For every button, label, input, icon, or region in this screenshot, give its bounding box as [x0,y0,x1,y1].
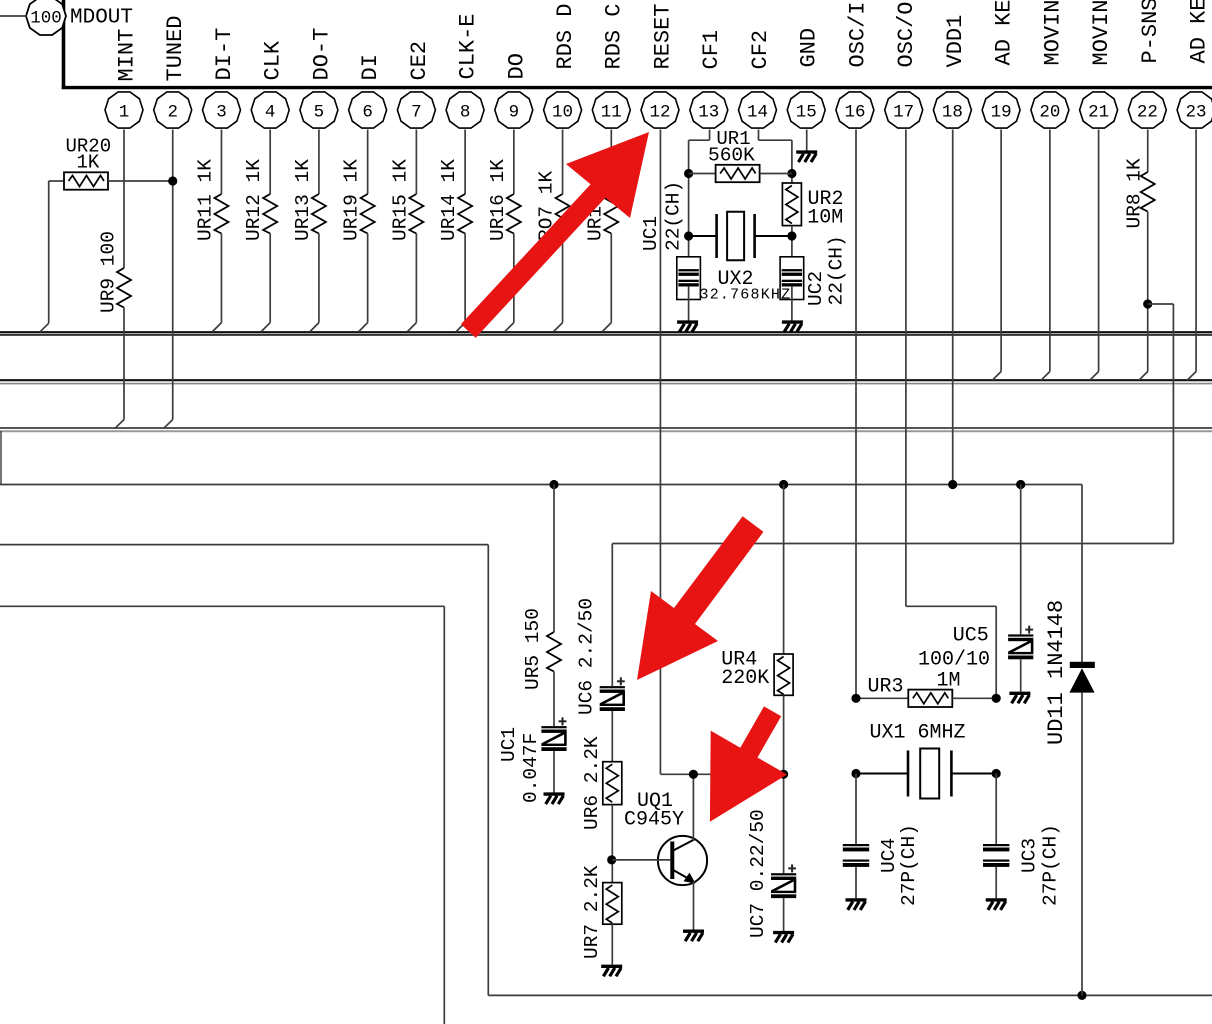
wire pin23 elbow to bus2 [1187,372,1196,381]
svg-text:UR16 1K: UR16 1K [487,159,509,241]
svg-text:UR6 2.2K: UR6 2.2K [581,736,603,830]
svg-text:8: 8 [460,102,471,122]
pin 22 bubble [1128,92,1166,128]
wire UX2 left lead [689,235,717,237]
wire UC5 top lead [1020,485,1022,635]
wire pin7 upper [415,130,417,195]
wire UR20 right lead [108,180,173,182]
svg-text:1M: 1M [937,670,961,693]
svg-text:AD KE: AD KE [1186,0,1211,64]
wire pin9 elbow to bus1 [505,323,514,332]
resistor UR5 150 [547,632,561,672]
ground UC2 [782,322,803,332]
svg-text:CLK-E: CLK-E [456,13,481,79]
wire pin2 down [172,130,174,420]
svg-text:22: 22 [1137,102,1158,122]
wire pin20 down [1049,130,1051,372]
wire UX2 left column upper [688,140,690,270]
wire UR1 right lead [760,173,792,175]
wire UR8 tap to right drop [1148,303,1174,305]
node UR20/pin2 junction [168,176,177,185]
wire box1 vertical [487,545,489,996]
wire pin4 elbow to bus1 [261,323,270,332]
wire pin10 elbow to bus1 [554,323,563,332]
resistor UR2 10M [782,183,801,226]
wire UQ1 base lead [612,859,670,861]
node UR1 right [787,169,796,178]
svg-text:RESET: RESET [650,3,675,69]
wire pin14 stub [757,130,759,141]
node UX1 left [851,769,860,778]
ground UC7 [773,933,794,943]
pin 14 bubble [739,92,777,128]
wire pin15 stub [806,130,808,151]
resistor UR9 100 [117,268,131,308]
svg-text:9: 9 [509,102,520,122]
capacitor UC1 0.047F (electrolytic) [541,717,566,751]
svg-text:UR5 150: UR5 150 [522,608,544,690]
capacitor UC7 0.22/50 (electrolytic) [771,864,796,898]
wire UD11 bottom lead [1081,693,1083,996]
resistor UR4 220K [774,654,793,695]
pin 7 bubble [397,92,435,128]
svg-text:UC3: UC3 [1019,838,1041,873]
wire UR6 to UR7 [611,805,613,883]
ground UC5 [1009,693,1030,703]
wire UX1 right lead [952,773,997,775]
pin 23 bubble [1177,92,1212,128]
svg-text:RDS C: RDS C [602,3,627,69]
wire UC4 top lead [855,774,857,845]
bus line B3b [0,430,1212,432]
wire UR4 upper [783,485,785,655]
wire pin12 horizontal to UR4/UC7 column [660,773,783,775]
wire pin11 lower [610,234,612,323]
svg-text:22(CH): 22(CH) [826,235,848,305]
svg-text:CLK: CLK [261,40,286,80]
wire UR4 to UC7 [783,695,785,873]
wire pin7 elbow to bus1 [407,323,416,332]
svg-text:UR14 1K: UR14 1K [438,159,460,241]
resistor UR17 1K [604,194,618,234]
wire UR20 left drop [48,181,50,323]
svg-text:10M: 10M [807,207,843,230]
wire UC1 to ground [688,286,690,321]
pin 18 bubble [933,92,971,128]
svg-text:1: 1 [119,102,130,122]
wire bottom rail y995 [488,994,1212,996]
svg-text:DI: DI [358,54,383,80]
pin 100 MDOUT bubble [26,0,66,35]
diode UD11 1N4148 [1069,662,1094,693]
svg-text:OSC/I: OSC/I [845,1,870,67]
wire pin22 lower [1147,212,1149,372]
node rail/UR4 [779,480,788,489]
resistor UR13 1K [312,194,326,234]
wire pin4 upper [269,130,271,195]
resistor UR3 1M [908,690,952,707]
svg-text:CF2: CF2 [748,30,773,70]
svg-text:UR13 1K: UR13 1K [292,159,314,241]
svg-text:UR12 1K: UR12 1K [243,159,265,241]
node UR4/UC7/reset junction [779,770,788,779]
svg-text:DI-T: DI-T [212,28,237,81]
svg-text:UD11 1N4148: UD11 1N4148 [1044,600,1069,745]
bus line B2a [0,379,1212,381]
svg-text:UC5: UC5 [953,625,989,648]
svg-text:C945Y: C945Y [624,809,684,832]
wire pin9 lower [513,234,515,323]
wire pin23 down [1195,130,1197,372]
resistor UR19 1K [361,194,375,234]
wire UR1 left lead [689,173,716,175]
pin 8 bubble [446,92,484,128]
bus line B2b [0,383,1212,385]
svg-text:7: 7 [411,102,422,122]
svg-text:UR19 1K: UR19 1K [341,159,363,241]
transistor UQ1 C945Y [658,836,707,885]
wire pin13 jog [689,139,710,141]
svg-text:23: 23 [1186,102,1207,122]
wire pin20 elbow to bus2 [1041,372,1050,381]
wire pin11 elbow to bus1 [602,323,611,332]
resistor UR6 2.2K [603,762,622,805]
pin 15 bubble [787,92,825,128]
svg-text:4: 4 [265,102,276,122]
wire pin10 upper [562,130,564,195]
node UX2 left [684,231,693,240]
pin 17 bubble [885,92,923,128]
node UR3 left [851,694,860,703]
svg-text:12: 12 [650,102,671,122]
wire pin5 lower [318,234,320,323]
svg-text:UC6 2.2/50: UC6 2.2/50 [576,598,598,715]
svg-text:16: 16 [844,102,865,122]
ground UC1 0.047F [544,794,565,804]
svg-text:27P(CH): 27P(CH) [1040,824,1062,906]
wire UC3 to ground [995,867,997,898]
svg-text:MINT: MINT [114,29,139,82]
pin 16 bubble [836,92,874,128]
wire UX2 right column upper [791,140,793,183]
wire VDD rail y485 [0,484,1082,486]
svg-text:0.047F: 0.047F [520,733,542,803]
wire pin7 lower [415,234,417,323]
wire UC1 to ground [553,751,555,793]
svg-text:AD KE: AD KE [992,0,1017,66]
node collector junction [689,770,698,779]
wire pin11 upper [610,130,612,195]
red arrow 1 (points to pin12 RESET) [461,132,649,338]
node UD11/bottom rail [1077,991,1086,1000]
wire pin8 lower [464,234,466,323]
resistor UR15 1K [409,194,423,234]
wire pin5 upper [318,130,320,195]
wire pin6 lower [367,234,369,323]
svg-text:UR9 100: UR9 100 [98,231,120,313]
svg-text:MOVIN: MOVIN [1040,0,1065,66]
pin 11 bubble [592,92,630,128]
ground UC4 [846,900,867,910]
wire pin8 elbow to bus1 [456,323,465,332]
resistor UR16 1K [507,194,521,234]
pin 20 bubble [1031,92,1069,128]
crystal UX2 32.768KHZ [717,212,755,261]
wire pin4 lower [269,234,271,323]
pin 10 bubble [544,92,582,128]
svg-text:6: 6 [362,102,373,122]
red arrow 3 (points to UQ1) [710,706,787,821]
wire pin6 elbow to bus1 [359,323,368,332]
wire UC6 to UR6 [611,711,613,762]
svg-text:5: 5 [314,102,325,122]
wire pin16 OSC/I down [855,130,857,699]
svg-text:100: 100 [30,9,62,29]
wire pin17 jog right [906,605,996,607]
wire pin17 jog down [995,606,997,698]
resistor UR11 1K [214,194,228,234]
wire pin10 lower [562,234,564,323]
wire UR3 right lead [952,697,996,699]
pin 2 bubble [154,92,192,128]
transistor UQ1 emitter arrow [684,873,696,884]
IC U1 body bottom edge [62,86,1212,89]
svg-text:15: 15 [796,102,817,122]
node rail/VDD1 [948,480,957,489]
wire pin1 down [123,130,125,269]
svg-text:RDS D: RDS D [553,3,578,69]
ground UC3 [986,900,1007,910]
ground pin15 GND [796,152,817,162]
svg-text:18: 18 [942,102,963,122]
svg-text:27P(CH): 27P(CH) [898,824,920,906]
wire pin14 jog [758,139,791,141]
wire UR3 left lead [856,697,908,699]
wire pin1 elbow to bus3 [115,420,124,429]
svg-text:P-SNS: P-SNS [1138,0,1163,64]
resistor RO7 1K [556,194,570,234]
bus line B1a [0,331,1212,333]
capacitor UC1 22(CH) (boxed) [677,257,701,300]
svg-text:3: 3 [216,102,227,122]
svg-text:100/10: 100/10 [918,649,990,672]
pin 3 bubble [203,92,241,128]
wire UC3 top lead [995,774,997,845]
wire pin22 upper [1147,130,1149,173]
pin 13 bubble [690,92,728,128]
capacitor UC2 22(CH) (boxed) [780,257,804,300]
wire pin19 elbow to bus2 [992,372,1001,381]
wire UR20 elbow to bus1 [40,323,49,332]
wire UC4 to ground [855,867,857,898]
svg-text:UX1 6MHZ: UX1 6MHZ [870,722,966,745]
svg-text:UC1: UC1 [640,216,662,251]
capacitor UC3 27P(CH) (ceramic) [983,844,1009,867]
capacitor UC6 2.2/50 (electrolytic) [600,677,625,711]
node base junction [607,855,616,864]
ground UC1 [677,322,698,332]
resistor UR12 1K [263,194,277,234]
wire UX2 right lead [755,235,792,237]
svg-text:DO: DO [504,53,529,79]
svg-text:MOVIN: MOVIN [1089,0,1114,66]
wire UQ1 collector lead [692,774,694,840]
wire UR5 to UC1 [553,672,555,727]
wire pin2 elbow to bus3 [164,420,173,429]
svg-text:19: 19 [991,102,1012,122]
pin 4 bubble [251,92,289,128]
wire left edge stub [0,431,2,485]
svg-text:VDD1: VDD1 [943,15,968,68]
wire UC2 to ground [791,286,793,321]
IC U1 body left edge [62,0,66,89]
bus line B3a [0,427,1212,429]
svg-text:MDOUT: MDOUT [70,7,133,30]
wire pin3 elbow to bus1 [212,323,221,332]
pin 21 bubble [1080,92,1118,128]
wire net543 right segment [612,543,1173,545]
wire box2 top [0,605,444,607]
wire pin22 elbow to bus2 [1139,372,1148,381]
svg-text:TUNED: TUNED [163,15,188,81]
resistor UR1 560K [716,165,760,182]
svg-text:UR3: UR3 [868,676,904,699]
wire pin18 VDD1 down [952,130,954,485]
wire pin13 stub [709,130,711,141]
svg-text:UC1: UC1 [498,727,520,762]
node UR1 left [684,169,693,178]
wire UR2 to UX2 row [791,226,793,270]
resistor UR14 1K [458,194,472,234]
svg-text:13: 13 [698,102,719,122]
node UR8 tap [1143,299,1152,308]
svg-text:UR8 1K: UR8 1K [1123,158,1145,229]
svg-text:21: 21 [1088,102,1109,122]
wire pin6 upper [367,130,369,195]
red arrow 2 (points to UC6) [637,516,763,680]
svg-text:11: 11 [601,102,622,122]
svg-text:UR15 1K: UR15 1K [389,159,411,241]
crystal UX1 6MHZ [908,749,951,799]
svg-text:22(CH): 22(CH) [663,181,685,251]
svg-text:2: 2 [167,102,178,122]
ground UR7 [601,966,622,976]
svg-text:GND: GND [797,28,822,68]
wire pin21 elbow to bus2 [1090,372,1099,381]
ground UQ1 emitter [683,931,704,941]
wire pin9 upper [513,130,515,195]
svg-text:17: 17 [893,102,914,122]
pin 9 bubble [495,92,533,128]
wire UR5 upper [553,485,555,633]
wire net544 left segment [0,544,488,546]
wire UD11 top lead [1081,485,1083,664]
wire UX1 left lead [856,773,908,775]
capacitor UC4 27P(CH) (ceramic) [843,844,869,867]
svg-text:220K: 220K [721,667,769,690]
node UR3 right [992,694,1001,703]
node UX2 right [787,231,796,240]
svg-text:10: 10 [552,102,573,122]
svg-text:CF1: CF1 [699,30,724,70]
resistor UR7 2.2K [603,883,622,925]
pin 5 bubble [300,92,338,128]
wire box2 vertical [443,606,445,1024]
wire pin3 upper [220,130,222,195]
svg-text:UC2: UC2 [805,271,827,306]
svg-text:1K: 1K [77,152,100,174]
wire pin17 OSC/O down [905,130,907,607]
svg-text:UR11 1K: UR11 1K [194,159,216,241]
wire UC7 to ground [783,898,785,931]
svg-text:560K: 560K [708,145,755,167]
svg-text:UR7 2.2K: UR7 2.2K [581,865,603,959]
node UX1 right [992,769,1001,778]
wire pin19 down [1000,130,1002,372]
capacitor UC5 100/10 (electrolytic) [1008,626,1033,660]
pin 6 bubble [349,92,387,128]
wire pin100 lead [0,15,27,17]
wire pin12 RESET down [659,130,661,775]
pin 1 bubble [105,92,143,128]
wire UR20 left lead [49,180,64,182]
node rail/UC5 [1016,480,1025,489]
node rail/UR5 [549,480,558,489]
bus line B1b [0,334,1212,336]
wire pin5 elbow to bus1 [310,323,319,332]
svg-text:UC4: UC4 [878,838,900,873]
svg-text:OSC/O: OSC/O [894,1,919,67]
svg-text:32.768KHZ: 32.768KHZ [700,287,792,304]
wire UC5 to ground [1020,660,1022,692]
svg-text:CE2: CE2 [407,41,432,81]
resistor UR20 1K [64,172,108,189]
wire pin1 lower [123,308,125,420]
wire right drop [1172,304,1174,544]
wire pin8 upper [464,130,466,195]
wire pin3 lower [220,234,222,323]
svg-text:14: 14 [747,102,768,122]
pin 19 bubble [982,92,1020,128]
resistor UR8 1K [1141,172,1155,212]
pin 12 bubble [641,92,679,128]
wire UR7 to ground [611,924,613,965]
wire UC6 top lead [611,544,613,687]
wire pin21 down [1098,130,1100,372]
svg-text:UC7 0.22/50: UC7 0.22/50 [747,809,769,938]
svg-text:DO-T: DO-T [309,28,334,81]
wire UQ1 emitter lead [693,882,695,931]
svg-text:20: 20 [1039,102,1060,122]
